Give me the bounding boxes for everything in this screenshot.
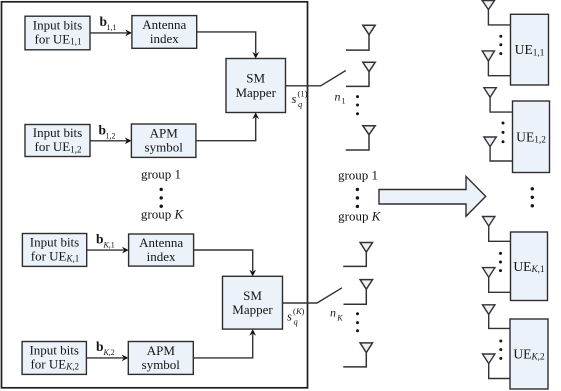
- svg-text:Input bits: Input bits: [30, 234, 79, 249]
- svg-text:q: q: [294, 317, 299, 327]
- svg-text:(1): (1): [298, 89, 308, 99]
- svg-text:b: b: [96, 231, 104, 246]
- svg-text:group K: group K: [338, 208, 382, 223]
- svg-text:Antenna: Antenna: [142, 17, 186, 32]
- svg-text:Input bits: Input bits: [29, 342, 78, 357]
- svg-text:n: n: [330, 306, 336, 320]
- svg-text:b: b: [96, 339, 104, 354]
- svg-text:q: q: [298, 99, 303, 109]
- svg-text:symbol: symbol: [145, 140, 184, 155]
- svg-text:group 1: group 1: [338, 168, 378, 183]
- svg-text:APM: APM: [147, 343, 176, 358]
- svg-text:group K: group K: [141, 207, 185, 222]
- svg-text:SM: SM: [246, 71, 265, 86]
- svg-text:s: s: [287, 310, 292, 324]
- svg-text:symbol: symbol: [142, 357, 181, 372]
- svg-text:n: n: [335, 89, 341, 103]
- svg-text:Mapper: Mapper: [232, 302, 273, 317]
- svg-text:): ): [302, 306, 305, 316]
- svg-text:index: index: [147, 249, 176, 264]
- svg-text:Input bits: Input bits: [33, 125, 82, 140]
- svg-text:s: s: [292, 92, 297, 106]
- svg-text:SM: SM: [243, 288, 262, 303]
- svg-text:1,2: 1,2: [106, 131, 116, 140]
- svg-text:group 1: group 1: [141, 167, 181, 182]
- svg-text:Antenna: Antenna: [139, 235, 183, 250]
- svg-text:Mapper: Mapper: [235, 85, 276, 100]
- svg-text:1: 1: [342, 96, 346, 105]
- svg-text:K: K: [336, 314, 343, 323]
- svg-text:,2: ,2: [109, 348, 115, 357]
- svg-text:APM: APM: [150, 126, 179, 141]
- svg-text:,1: ,1: [109, 240, 115, 249]
- svg-text:1,1: 1,1: [107, 23, 117, 32]
- svg-text:Input bits: Input bits: [33, 17, 82, 32]
- svg-text:index: index: [150, 31, 179, 46]
